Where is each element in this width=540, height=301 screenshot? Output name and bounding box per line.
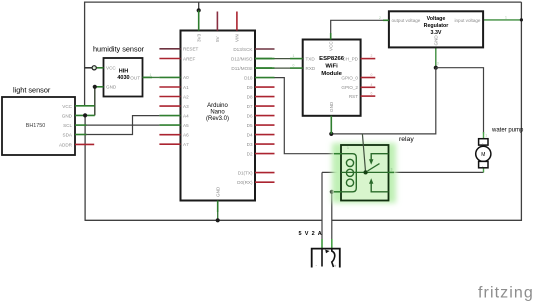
wire plug minus green cap [321,239,323,249]
arduino pin D4 [255,134,275,136]
wire regulator input to 5V right rail [483,19,521,21]
svg-text:A4: A4 [183,113,189,118]
node relay common junction [364,170,368,174]
svg-text:6: 6 [371,92,373,96]
svg-text:Regulator: Regulator [424,23,449,29]
arduino pin A1 [159,86,180,88]
svg-text:D12/MISO: D12/MISO [231,56,253,61]
svg-text:3: 3 [437,62,439,66]
wire 5V top rail [85,1,522,3]
svg-text:Nano: Nano [210,110,225,116]
svg-text:RST: RST [349,94,358,99]
wire relay coil minus to junction [332,191,336,193]
arduino pin D6 [255,115,275,117]
voltage regulator 3.3V [389,11,483,47]
humidity sensor HIH4030 [93,45,145,97]
svg-text:VCC: VCC [62,104,72,109]
svg-text:Module: Module [321,71,342,77]
relay coil [341,154,356,192]
svg-text:WiFi: WiFi [325,64,338,70]
esp pin TXD [290,58,303,60]
svg-text:D6: D6 [247,113,253,118]
wire arduino 5V pin to top rail [198,2,200,10]
svg-text:1: 1 [150,73,152,77]
pin number marks (faint) [150,16,508,172]
svg-text:+: + [334,263,337,268]
arduino pin D8 [255,96,275,98]
arduino pin VIN top [236,12,238,31]
arduino pin D10 [255,77,275,79]
wire arduino GND pin to bottom rail [217,201,219,221]
svg-text:5 V 2 A: 5 V 2 A [299,231,323,237]
node arduino 5V junction [197,8,201,12]
arduino pin 5V top [216,12,218,31]
svg-text:VCC: VCC [106,66,116,71]
arduino pin A6 [159,134,180,136]
relay body [341,145,389,201]
node regulator GND junction [434,66,438,70]
relay blade contact [368,164,380,171]
arduino pin A3 [159,105,180,107]
wire 5V right rail [520,2,522,221]
esp pin RXD [290,67,303,69]
svg-text:OUT: OUT [130,76,140,81]
node regulator input junction [520,18,523,21]
wire D10 to relay coil [274,78,336,154]
svg-text:CH_PD: CH_PD [342,57,358,62]
relay NC contact arrow [371,154,388,161]
svg-text:D4: D4 [247,132,253,137]
svg-text:(Rev3.0): (Rev3.0) [206,116,229,122]
wire motor bottom green cap [483,168,485,173]
svg-text:D9: D9 [247,85,253,90]
humidity pin GND [95,86,104,88]
relay COM wire across body [341,171,389,173]
esp pin GPIO_0 unconnected [361,77,376,79]
svg-text:D8: D8 [247,94,253,99]
arduino pin D0(RX) [255,181,275,183]
esp pin GPIO_2 unconnected [361,86,376,88]
svg-text:GPIO_0: GPIO_0 [341,75,358,80]
node relay coil minus junction [330,190,334,194]
svg-text:1: 1 [505,16,507,20]
wire SCL straight to A5 [133,124,160,126]
svg-text:light sensor: light sensor [13,86,51,95]
svg-text:ADDR: ADDR [59,142,73,147]
ESP8266 WiFi module [303,40,361,116]
svg-text:D1(TX): D1(TX) [238,170,253,175]
relay selection glow [332,143,396,203]
wire plug minus vertical [321,172,323,248]
wire 5V left rail down to light sensor VCC [84,2,86,106]
svg-text:RXD: RXD [306,66,316,71]
wire diagonal to relay common [362,134,365,173]
svg-text:VIN: VIN [235,34,240,42]
svg-text:SCL: SCL [63,123,72,128]
svg-text:HIH: HIH [119,69,129,75]
svg-text:TXD: TXD [306,57,316,62]
arduino pin 3V3 top [198,10,200,30]
esp pin RST unconnected [361,95,376,97]
regulator pin output [383,19,389,21]
humidity pin VCC [94,67,103,69]
svg-text:M: M [481,152,485,158]
wire motor top green cap [483,132,485,139]
svg-text:A1: A1 [183,85,189,90]
arduino pin D9 [255,86,275,88]
svg-text:A3: A3 [183,104,189,109]
arduino pin D2 [255,153,275,155]
arduino pin A4 [159,115,180,117]
arduino pin D12/MISO [255,58,275,60]
arduino pin GND bottom [217,201,219,213]
arduino pin D11/MOSI [255,67,275,69]
svg-text:4030: 4030 [117,75,129,81]
svg-text:AREF: AREF [183,56,195,61]
svg-text:3V3: 3V3 [196,33,201,42]
wire humidity OUT to A0 [143,76,160,78]
node humidity VCC ring [92,66,96,70]
wire 5V bottom-right rail [332,219,522,221]
light sensor pin SDA [75,134,87,136]
esp pin VCC top [330,33,332,40]
wire relay COM long horizontal (plug minus to motor bottom) [322,171,484,173]
svg-text:GND: GND [62,113,73,118]
svg-text:Arduino: Arduino [207,103,228,109]
motor M water pump [476,128,524,168]
wire regulator output to ESP VCC [331,20,384,36]
svg-text:GND: GND [329,101,334,112]
svg-text:GND: GND [106,85,117,90]
node relay common junction top [364,170,368,174]
svg-text:D10: D10 [244,75,253,80]
power plug 5V2A [299,231,340,268]
wire SCL to A4 jog [86,124,133,126]
wire GND link light to humidity [94,87,96,116]
svg-text:GND: GND [434,35,439,46]
svg-text:water pump: water pump [491,128,524,134]
svg-text:1: 1 [347,146,349,150]
humidity pin OUT [143,76,153,78]
svg-text:4: 4 [371,83,373,87]
svg-text:D5: D5 [247,123,253,128]
plug plus curved pin [332,249,335,267]
arduino pin A5 [159,124,180,126]
wire plug plus green cap [331,239,333,249]
svg-text:0: 0 [371,73,373,77]
wire SDA jog up to A4 [86,116,159,135]
svg-text:RESET: RESET [183,47,199,52]
plug minus pin [321,249,323,267]
svg-text:D11/MOSI: D11/MOSI [231,66,252,71]
svg-text:fritzing: fritzing [478,285,534,301]
arduino pin D1(TX) [255,172,275,174]
relay NO contact arrow [371,183,388,192]
svg-text:relay: relay [399,136,414,143]
arduino pin D7 [255,105,275,107]
arduino pin A2 [159,96,180,98]
light sensor pin VCC [75,105,95,107]
wire regulator GND to motor top [436,68,484,134]
svg-text:D7: D7 [247,104,253,109]
svg-text:SDA: SDA [63,133,73,138]
svg-text:D2: D2 [247,151,253,156]
svg-text:2: 2 [371,54,373,58]
arduino pin D13/SCK [255,48,275,50]
svg-text:A6: A6 [183,133,189,138]
light sensor pin GND [75,114,95,116]
svg-text:A2: A2 [183,94,189,99]
svg-text:2: 2 [379,16,381,20]
node ESP GND junction [329,132,333,136]
light sensor pin SCL [75,124,87,126]
svg-text:0: 0 [293,64,295,68]
svg-text:A0: A0 [183,75,189,80]
svg-text:A5: A5 [183,123,189,128]
svg-text:D3: D3 [247,142,253,147]
arduino pin AREF [159,58,180,60]
relay highlighted [332,143,396,203]
relay coil pin stubs [334,153,341,155]
wire regulator GND stub [435,47,437,67]
wire GND left vertical [84,115,86,220]
svg-text:ESP8266: ESP8266 [319,56,345,62]
wire plug plus vertical [331,192,333,249]
light sensor pin ADDR unconnected [75,143,94,145]
arduino pin A0 [159,76,180,78]
svg-text:GPIO_2: GPIO_2 [341,85,358,90]
esp pin RXD green cap arduino side [255,67,272,69]
arduino pin RESET [159,48,180,50]
wire D11 to ESP RXD [272,67,290,69]
svg-text:A7: A7 [183,142,189,147]
arduino pin D5 [255,124,275,126]
node humidity GND junction [93,85,97,89]
svg-text:BH1750: BH1750 [26,123,45,129]
node light GND junction [83,113,87,117]
wire GND bottom-left rail [85,219,322,221]
wire regulator GND down to ESP GND row [331,68,436,134]
plug arrowhead [325,250,329,254]
svg-text:1: 1 [293,54,295,58]
esp pin CH_PD unconnected [361,58,376,60]
esp pin TXD green cap arduino side [255,58,272,60]
svg-text:D13/SCK: D13/SCK [233,47,253,52]
svg-text:input voltage: input voltage [454,18,480,23]
arduino pin A7 [159,143,180,145]
svg-text:humidity sensor: humidity sensor [93,45,145,54]
op-amp U1 Arduino Nano [181,31,256,201]
svg-text:3: 3 [391,168,393,172]
svg-text:1: 1 [485,134,487,138]
light sensor BH1750 [2,86,75,156]
node arduino GND junction [216,218,220,222]
wire link to humidity VCC [85,67,95,69]
arduino pin D3 [255,143,275,145]
wire D12 to ESP TXD [272,58,290,60]
svg-text:D0(RX): D0(RX) [237,180,253,185]
svg-text:Voltage: Voltage [427,16,446,22]
svg-text:5V: 5V [215,35,220,42]
svg-text:VCC: VCC [329,41,334,51]
svg-text:GND: GND [215,186,220,197]
esp pin GND bottom [330,116,332,134]
svg-text:output voltage: output voltage [392,18,421,23]
